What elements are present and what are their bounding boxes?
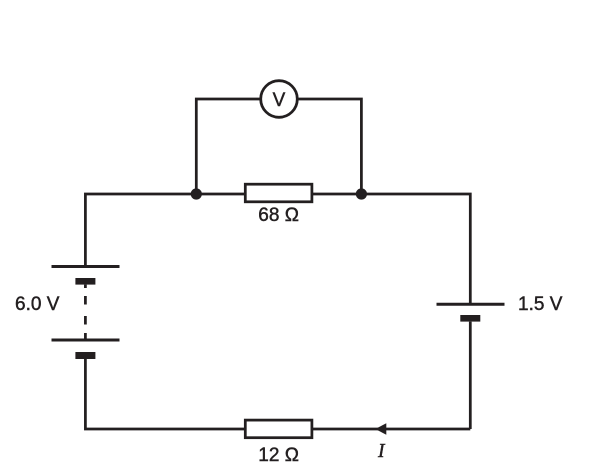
svg-text:12 Ω: 12 Ω <box>258 445 299 466</box>
voltmeter V1 <box>261 81 298 118</box>
wire: stub below top cell <box>84 285 87 288</box>
battery B1 6.0V short thick plate (top cell) <box>75 278 95 285</box>
svg-text:68 Ω: 68 Ω <box>258 205 299 226</box>
svg-text:V: V <box>273 90 286 111</box>
svg-text:I: I <box>377 441 386 462</box>
svg-text:6.0 V: 6.0 V <box>15 294 60 315</box>
wire: voltmeter branch right (voltmeter down to node B) <box>297 99 361 194</box>
wire: right lower vertical segment <box>469 322 472 429</box>
svg-text:1.5 V: 1.5 V <box>518 294 563 315</box>
battery B1 6.0V short thick plate (bottom cell) <box>75 352 95 359</box>
wire: left lower vertical and bottom-left horizontal segment <box>85 359 245 429</box>
battery B1 6.0V long plate (top cell) <box>52 265 120 268</box>
battery B1 6.0V long plate (bottom cell) <box>52 339 120 342</box>
node B (right junction dot) <box>356 188 367 199</box>
wire: voltmeter branch left (node A up to voltmeter) <box>196 99 260 194</box>
current direction arrow <box>375 423 386 434</box>
wire: dash 2 of battery middle dashed link <box>84 316 87 325</box>
resistor R1 body <box>245 184 312 202</box>
node A (left junction dot) <box>191 188 202 199</box>
battery B2 1.5V long plate <box>437 303 505 306</box>
wire: dash 3 of battery middle dashed link <box>84 333 87 340</box>
battery B2 1.5V short thick plate <box>460 315 480 322</box>
resistor R2 body <box>245 420 312 438</box>
wire: bottom-right horizontal segment <box>312 428 470 431</box>
wire: left vertical and top-left horizontal segment <box>85 194 245 267</box>
wire: top-right horizontal and right upper vertical segment <box>312 194 470 304</box>
wire: dash 1 of battery middle dashed link <box>84 296 87 305</box>
